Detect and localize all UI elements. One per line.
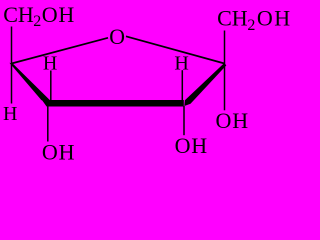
svg-text:CH: CH [217,5,248,30]
svg-text:2: 2 [247,17,255,34]
wire C5 to ring O [12,38,109,64]
wire C2 down to OH [224,64,226,111]
svg-text:OH: OH [175,133,208,158]
svg-text:OH: OH [42,139,75,162]
wire C5 up to CH2OH [11,27,13,64]
svg-text:O: O [109,25,125,49]
wedge bond C5-C4 [9,63,50,101]
svg-text:OH: OH [257,5,292,30]
wire H to C4 [50,71,52,101]
svg-text:H: H [3,103,17,125]
wire C3 down to OH [183,106,185,135]
bold ring bond C4-C3 (front edge) [42,100,184,107]
wire C4 down to OH [47,106,49,142]
svg-text:OH: OH [42,2,75,27]
svg-text:OH: OH [216,108,249,133]
svg-text:2: 2 [33,13,41,30]
wire C5 down to H [11,64,13,104]
label CH2OH top-left [3,2,75,30]
wire C2 up to CH2OH [224,31,226,64]
wedge bond C2-C3 [184,63,226,106]
wire H to C3 [181,70,183,100]
label CH2OH top-right [217,5,292,34]
svg-text:CH: CH [3,2,34,27]
wire ring O to C2 [126,36,225,63]
